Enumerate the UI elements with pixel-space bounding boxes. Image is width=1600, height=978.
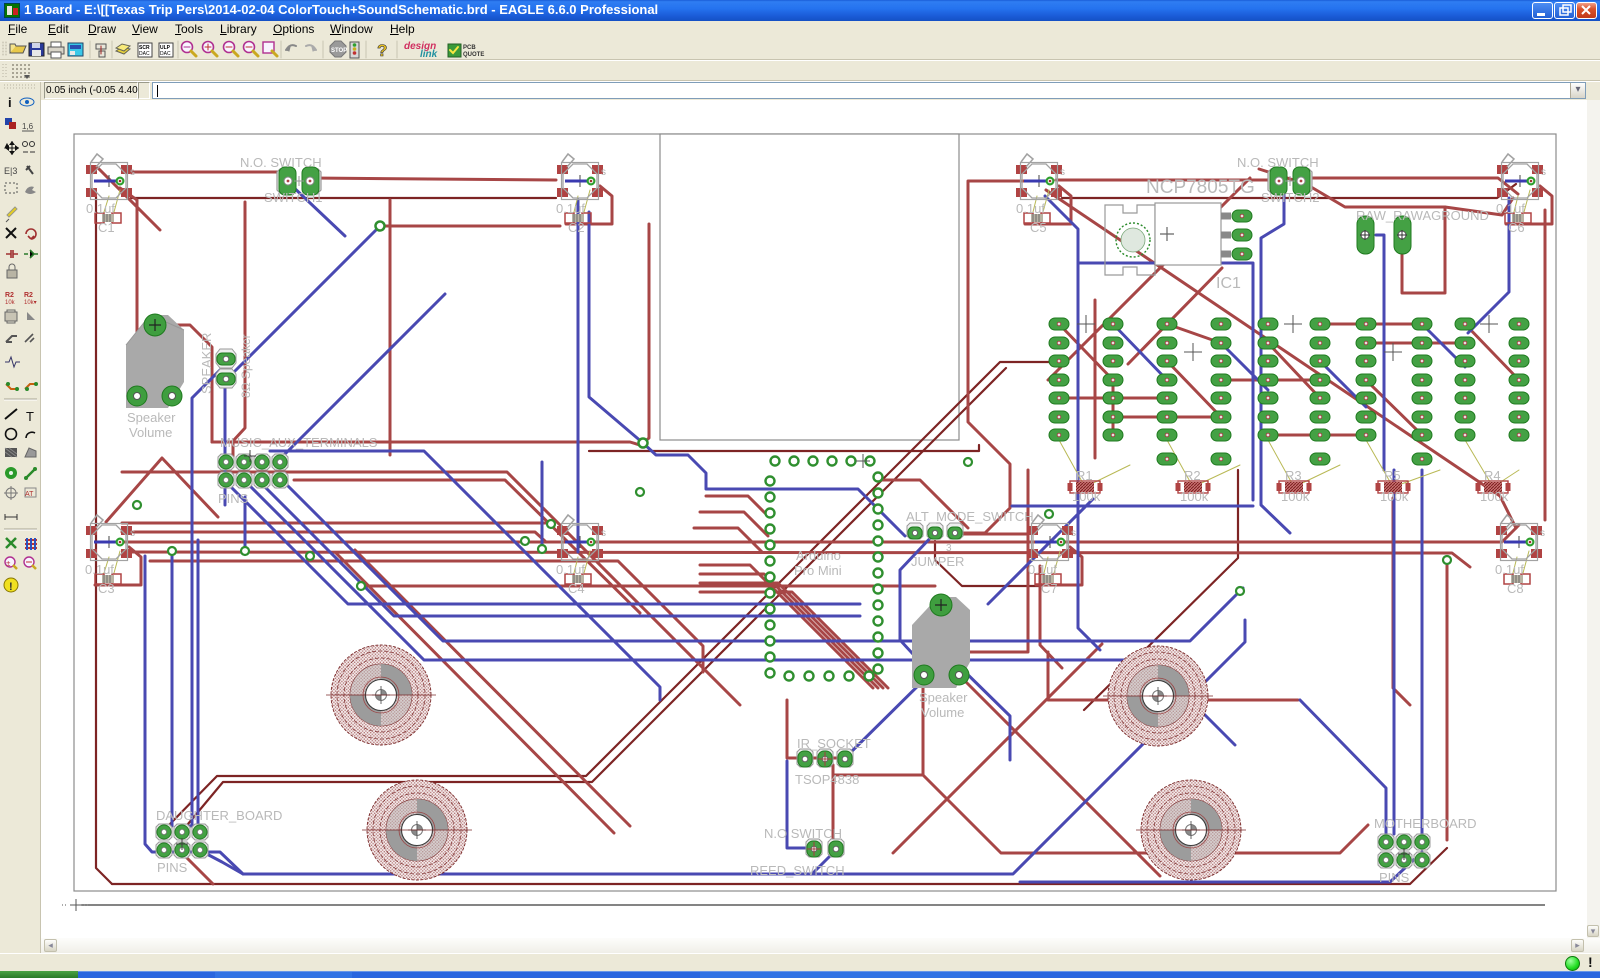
capacitor C1 [95, 213, 121, 223]
speaker hole bottom-right [1136, 780, 1246, 880]
wire red C5 to SWITCH2 [1056, 179, 1272, 182]
svg-text:T: T [26, 409, 34, 424]
svg-text:JUMPER: JUMPER [911, 554, 964, 569]
wire blue speaker pad drop [224, 387, 227, 505]
wire red speaker2 cross 2 [893, 644, 1102, 853]
capacitor C2 [565, 213, 591, 223]
wire red mid horizontal A [122, 532, 546, 542]
wire red rgrid row link d [1320, 323, 1422, 326]
svg-text:0.1uf: 0.1uf [85, 562, 114, 577]
svg-text:DAC: DAC [139, 51, 150, 57]
wire blue speaker2 link [959, 666, 1010, 760]
wire blue TSOP to reed [787, 761, 812, 848]
wire red C7 down [1040, 566, 1062, 668]
wire red C5 to right vertical [962, 181, 1032, 533]
ULP icon [159, 43, 173, 57]
wire red C3 hook [95, 547, 141, 585]
via B [639, 439, 648, 448]
svg-text:AT: AT [25, 491, 34, 498]
wire blue mid 506 [1012, 505, 1253, 508]
svg-text:TSOP4838: TSOP4838 [795, 772, 859, 787]
svg-text:R3: R3 [1285, 468, 1302, 483]
svg-text:RAW_RAWAGROUND: RAW_RAWAGROUND [1356, 208, 1489, 223]
wire dark bottom horizontal [112, 848, 1447, 884]
wire blue header stub [244, 497, 247, 549]
via E2 [357, 582, 365, 590]
potentiometer Speaker Volume 1 [126, 314, 184, 408]
svg-text:STOP: STOP [331, 48, 347, 54]
via C7a [1045, 510, 1053, 518]
svg-text:PCB: PCB [463, 45, 476, 51]
capacitor C7 [1035, 574, 1061, 584]
svg-text:0.1uf: 0.1uf [556, 562, 585, 577]
wire blue motherboard vertical 1 [1393, 470, 1396, 834]
SCR icon [138, 43, 152, 57]
svg-text:N.O. SWITCH: N.O. SWITCH [1237, 155, 1319, 170]
svg-text:R2: R2 [24, 292, 33, 299]
wire red arduino elbows [706, 496, 768, 516]
wire blue rgrid diag 1 [1113, 324, 1167, 380]
header MUSIC_AUX_TERMINALS PINS [218, 450, 288, 488]
svg-text:?: ? [377, 41, 387, 60]
wire red NCP X diagonal 3 [1128, 268, 1222, 364]
wire dark right diagonal lower [1084, 470, 1238, 710]
save floppy [29, 43, 44, 56]
resistor R2 [1178, 481, 1208, 493]
wire red mid right 700 [1048, 652, 1298, 700]
capacitor C3 mount pad [86, 515, 135, 561]
svg-text:Volume: Volume [129, 425, 172, 440]
potentiometer Speaker Volume 2 [912, 594, 970, 688]
wire blue rgrid diag 4 [1422, 324, 1465, 367]
svg-text:NCP7805TG: NCP7805TG [1146, 177, 1255, 198]
board outline [74, 134, 1556, 891]
svg-text:±: ± [6, 559, 11, 568]
svg-text:MUSIC_AUX_TERMINALS: MUSIC_AUX_TERMINALS [220, 435, 378, 450]
svg-text:C5: C5 [1030, 220, 1047, 235]
switch SWITCH1 [277, 167, 321, 195]
voltage regulator IC1 NCP7805TG [1105, 203, 1252, 275]
svg-text:!: ! [9, 581, 13, 593]
svg-text:0.1uf: 0.1uf [86, 201, 115, 216]
wire red C1 to SWITCH1 [131, 172, 288, 178]
jumper ALT_MODE_SWITCH [907, 523, 963, 539]
wire blue motherboard diagonal [1300, 700, 1386, 834]
wire red mid horizontal 442 [212, 442, 643, 446]
wire blue daughter verticals 3 [182, 363, 227, 826]
svg-text:Speaker: Speaker [127, 410, 176, 425]
wire dark trapezoid top [170, 362, 1050, 824]
wire red C5 hook [1025, 186, 1071, 224]
wire red rgrid row link e [1167, 324, 1221, 343]
via C4b [547, 520, 555, 528]
svg-text:C1: C1 [98, 220, 115, 235]
via G [964, 458, 972, 466]
wire red right edge vertical [1544, 210, 1547, 520]
wire blue header diagonal up [280, 294, 445, 459]
wire blue long diagonal to via [234, 226, 380, 372]
wire red SWITCH1 to C2 [311, 178, 556, 180]
wire red rgrid link 4 [1366, 380, 1422, 435]
airwire R2 [1167, 440, 1193, 487]
svg-text:DAUGHTER_BOARD: DAUGHTER_BOARD [156, 808, 282, 823]
wire blue SWITCH1 diagonal [290, 184, 345, 236]
wire blue daughter verticals 2 [164, 553, 172, 826]
svg-text:link: link [420, 49, 438, 60]
wire blue C2 drop left [577, 200, 580, 552]
svg-text:8Ω Speaker: 8Ω Speaker [239, 334, 253, 398]
wire red pins to bottom [184, 855, 213, 884]
via H [1443, 556, 1451, 564]
resistor R5 [1378, 481, 1408, 493]
svg-text:i: i [8, 95, 12, 110]
wire blue bottom right [1020, 852, 1422, 882]
via A [376, 222, 385, 231]
wire blue C5 branch to right [1078, 263, 1253, 330]
svg-text:R5: R5 [1384, 468, 1401, 483]
wire red bottom right vertical [1446, 560, 1449, 840]
dimension line bottom [81, 904, 1545, 906]
wire red center diagonal long 2 [355, 550, 630, 826]
wire red rgrid row link c [1268, 434, 1366, 437]
wire dark top-left horizontal [131, 197, 556, 199]
stop sign [330, 41, 346, 57]
ratsnest [350, 42, 359, 58]
open folder [10, 46, 26, 53]
wire red rgrid row link 3 [1366, 342, 1465, 345]
wire red arduino bundle 2 [700, 574, 878, 688]
wire red rgrid link 2 [1167, 361, 1221, 417]
wire dark top-right horizontal [1062, 184, 1516, 198]
RAW_VOLTAGE pads [1357, 216, 1411, 254]
header MOTHERBOARD PINS [1378, 834, 1430, 868]
wire red TSOP drop [832, 765, 835, 841]
wire blue bottom reed [812, 850, 836, 874]
svg-text:C7: C7 [1041, 581, 1058, 596]
svg-text:N.O SWITCH: N.O SWITCH [764, 826, 842, 841]
capacitor C4 mount pad [557, 515, 606, 561]
wire blue rgrid diag 3 [1320, 361, 1366, 407]
speaker hole bottom-left [362, 780, 472, 880]
wire red C1 drop [120, 188, 137, 394]
via E [636, 488, 644, 496]
wire red right side verticals [1094, 300, 1097, 458]
wire red volume drop [922, 686, 925, 775]
wire blue center diagonal 3 [280, 478, 1243, 641]
airwire C7 [1044, 557, 1048, 573]
svg-text:SPEAKER: SPEAKER [199, 333, 214, 394]
svg-text:PINS: PINS [218, 491, 249, 506]
svg-text:C4: C4 [568, 581, 585, 596]
svg-text:E|3: E|3 [4, 166, 17, 176]
svg-text:PINS: PINS [157, 860, 188, 875]
svg-text:N.O. SWITCH: N.O. SWITCH [240, 155, 322, 170]
via C3 [241, 547, 249, 555]
wire red C6 hook [1506, 186, 1552, 224]
wire red arduino bundle 1 [700, 565, 873, 688]
wire red vertical x390 [389, 200, 392, 455]
airwire C8 [1513, 557, 1517, 573]
wire blue center diagonal 2 [262, 484, 860, 616]
wire red rgrid link 1 [1059, 324, 1113, 435]
wire red rgrid link 3 [1268, 343, 1320, 398]
screen cutout [660, 134, 959, 440]
wire red rgrid link 5 [1465, 324, 1519, 380]
resistor R3 [1279, 481, 1309, 493]
wire blue rgrid diag 2 [1221, 343, 1268, 390]
resistor R4 [1478, 481, 1508, 493]
wire blue right verticals 1 [1252, 330, 1255, 500]
wire dark jumper drop [935, 541, 1040, 586]
Arduino Pro Mini pads [766, 454, 883, 681]
undo redo [286, 45, 296, 50]
capacitor C4 [565, 574, 591, 584]
airwire C2 [574, 196, 578, 212]
wire red mid horizontal E [361, 585, 935, 588]
wire red RAW to C6 [1402, 207, 1445, 293]
svg-text:C8: C8 [1507, 581, 1524, 596]
wire red mid horizontal C [125, 552, 1470, 567]
svg-text:C6: C6 [1508, 220, 1525, 235]
wire red header lower to diagonal [294, 480, 640, 613]
resistor R1 [1070, 481, 1100, 493]
svg-text:C2: C2 [568, 220, 585, 235]
wire red mid horizontal D [150, 561, 703, 672]
5 zoom icons [182, 42, 197, 57]
svg-text:R1: R1 [1076, 468, 1093, 483]
capacitor C2 mount pad [557, 154, 606, 200]
board/schematic swap [96, 44, 106, 57]
svg-text:ALT_MODE_SWITCH: ALT_MODE_SWITCH [906, 509, 1034, 524]
resistor pad grid [1049, 315, 1529, 465]
wire red speaker2 horizontal [912, 470, 1028, 652]
library book [116, 47, 130, 54]
reed switch REED_SWITCH [806, 839, 844, 857]
wire red rgrid row link 2 [1221, 379, 1320, 382]
wire red C1 diagonal [98, 168, 160, 230]
wire red NCP X diagonal 1 [1046, 190, 1516, 528]
svg-text:PINS: PINS [1379, 870, 1410, 885]
wire red speaker1 to header [163, 325, 212, 442]
svg-text:MOTHERBOARD: MOTHERBOARD [1374, 816, 1477, 831]
wire red jumper to vertical [962, 533, 1028, 536]
svg-text:SWITCH1: SWITCH1 [264, 190, 323, 205]
capacitor C5 mount pad [1016, 154, 1065, 200]
via C2 [168, 547, 176, 555]
wire red rgrid row link b [1113, 416, 1221, 419]
wire red REED right [923, 775, 1368, 853]
speaker hole top-left [326, 645, 436, 745]
wire red SWITCH2 to C6 [1307, 178, 1518, 194]
svg-text:Pro Mini: Pro Mini [794, 563, 842, 578]
airwire R4 [1465, 440, 1493, 487]
wire blue daughter verticals 1 [145, 556, 1245, 874]
capacitor C3 [95, 574, 121, 584]
airwire C6 [1514, 196, 1518, 212]
wire red mid horizontal B [122, 525, 1519, 542]
svg-text:10k: 10k [5, 300, 16, 306]
wire red C3 peak [106, 458, 218, 522]
svg-text:10k▾: 10k▾ [24, 300, 37, 306]
wire blue C2 drop right [589, 212, 905, 536]
wire blue C5 drop [1045, 196, 1100, 650]
capacitor C7 mount pad [1027, 515, 1076, 561]
svg-text:0.1uf: 0.1uf [1496, 201, 1525, 216]
wire red mid horizontal 469 [122, 472, 740, 705]
via C [133, 501, 141, 509]
wire blue SWITCH2 diagonal [1261, 187, 1290, 533]
wire red C2 to via2 [643, 224, 649, 443]
wire red TSOP feed [787, 700, 843, 758]
airwire R5 [1366, 440, 1393, 487]
svg-text:Speaker: Speaker [919, 690, 968, 705]
wire blue C6 drop [1468, 198, 1509, 333]
wire blue arduino horizontals 1 [226, 482, 860, 604]
wire red NCP X diagonal 2 [1048, 178, 1250, 380]
airwire R3 [1268, 440, 1294, 487]
svg-text:1,6: 1,6 [22, 122, 34, 131]
speaker hole top-right [1103, 646, 1213, 746]
wire red arduino bundle 4 [700, 592, 888, 688]
capacitor C8 mount pad [1496, 515, 1545, 561]
wire blue x542 stub [541, 462, 544, 547]
handle [2, 42, 4, 57]
capacitor C1 mount pad [86, 154, 135, 200]
wire red C2 hook [566, 186, 612, 224]
airwire C1 [104, 196, 109, 212]
wire red speaker2 cross 1 [966, 682, 1160, 876]
wire dark left vertical [96, 196, 112, 884]
svg-text:0.1uf: 0.1uf [1495, 562, 1524, 577]
wire blue center diagonal 4 [270, 451, 660, 700]
svg-text:R2: R2 [1184, 468, 1201, 483]
export image [68, 43, 83, 56]
wire red C7 hook [1036, 547, 1082, 585]
IR socket TSOP4838 [797, 749, 853, 767]
wire blue motherboard vertical 2 [1421, 470, 1424, 834]
svg-text:Arduino: Arduino [796, 548, 841, 563]
wire red arduino right drops [878, 480, 968, 528]
speaker terminal pads SPEAKER [216, 349, 236, 388]
svg-text:R4: R4 [1484, 468, 1501, 483]
capacitor C5 [1024, 213, 1050, 223]
wire dark under cutout [589, 445, 979, 451]
capacitor C6 [1505, 213, 1531, 223]
wire red center diagonal long 1 [336, 553, 614, 833]
header DAUGHTER_BOARD PINS [156, 824, 208, 858]
svg-text:REED_SWITCH: REED_SWITCH [750, 863, 845, 878]
wire blue C7 diagonal [988, 499, 1093, 604]
wire red under R5 [1393, 498, 1410, 705]
wire blue pins diagonal [203, 852, 243, 874]
svg-text:0.1uf: 0.1uf [556, 201, 585, 216]
svg-text:QUOTE: QUOTE [463, 52, 484, 58]
wire red arduino bundle 3 [700, 583, 883, 688]
svg-text:3: 3 [946, 543, 952, 554]
wire red vertical to MUSIC header [233, 202, 245, 458]
printer [48, 47, 64, 54]
switch SWITCH2 [1268, 167, 1312, 195]
via C4a [521, 537, 529, 545]
svg-text:Volume: Volume [921, 705, 964, 720]
wire blue TSOP to volume [845, 666, 938, 758]
capacitor C8 [1504, 574, 1530, 584]
wire dark trapezoid inner [188, 368, 1006, 824]
wire blue alt mode [900, 533, 935, 666]
svg-text:R2: R2 [5, 292, 14, 299]
svg-text:100k: 100k [1072, 489, 1101, 504]
airwire C4 [574, 557, 578, 573]
wire red TSOP to volume [833, 774, 923, 777]
wire blue center diagonal 1 [244, 480, 1235, 745]
wire blue daughter verticals 4 [197, 540, 200, 832]
pcb quote logo [448, 44, 461, 57]
svg-text:DAC: DAC [160, 51, 171, 57]
airwire C5 [1033, 196, 1037, 212]
via D [306, 552, 314, 560]
via C4c [538, 545, 546, 553]
airwire R1 [1059, 440, 1085, 487]
wire red rgrid row link [1059, 397, 1167, 400]
svg-text:SWITCH2: SWITCH2 [1261, 190, 1320, 205]
svg-text:IC1: IC1 [1216, 275, 1241, 292]
svg-text:IR_SOCKET: IR_SOCKET [797, 736, 871, 751]
svg-text:0.1uf: 0.1uf [1028, 562, 1057, 577]
svg-text:100k: 100k [1281, 489, 1310, 504]
svg-text:100k: 100k [1480, 489, 1509, 504]
svg-text:0.1uf: 0.1uf [1016, 201, 1045, 216]
svg-text:100k: 100k [1380, 489, 1409, 504]
wire red SWITCH2 down right [1259, 169, 1513, 215]
wire red mid horizontal F [122, 522, 548, 525]
airwire C3 [104, 557, 109, 573]
wire blue RAW drop [1376, 235, 1384, 470]
capacitor C6 mount pad [1497, 154, 1546, 200]
svg-text:100k: 100k [1180, 489, 1209, 504]
wire red via to C2 [380, 225, 560, 228]
svg-text:C3: C3 [98, 581, 115, 596]
via F [1236, 587, 1244, 595]
